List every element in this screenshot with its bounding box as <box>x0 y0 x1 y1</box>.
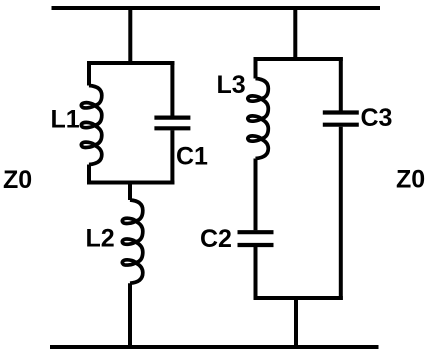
svg-text:L2: L2 <box>86 225 115 253</box>
svg-text:L1: L1 <box>51 106 80 134</box>
capacitor C3 <box>323 57 359 300</box>
wire left bottom <box>128 283 132 349</box>
wire top bus <box>52 6 381 10</box>
right tank top edge wire <box>254 57 343 61</box>
wire left mid <box>128 181 132 201</box>
capacitor C1 <box>154 61 190 185</box>
svg-text:Z0: Z0 <box>396 166 425 194</box>
svg-text:C2: C2 <box>200 225 232 253</box>
wire right box left edge mid <box>254 159 258 231</box>
capacitor C2 <box>238 232 274 300</box>
right tank bottom edge wire <box>254 296 343 300</box>
svg-text:Z0: Z0 <box>3 166 32 194</box>
left tank bottom edge wire <box>87 181 174 185</box>
wire bottom bus <box>50 345 379 349</box>
inductor L1 <box>81 61 101 185</box>
wire left feed top <box>128 6 132 65</box>
left tank top edge wire <box>87 61 174 65</box>
svg-text:C3: C3 <box>361 104 393 132</box>
inductor L3 <box>248 57 268 159</box>
svg-text:C1: C1 <box>176 143 208 171</box>
wire right feed top <box>293 6 297 61</box>
inductor L2 <box>122 200 142 283</box>
svg-text:L3: L3 <box>217 71 246 99</box>
wire right bottom <box>294 296 298 349</box>
